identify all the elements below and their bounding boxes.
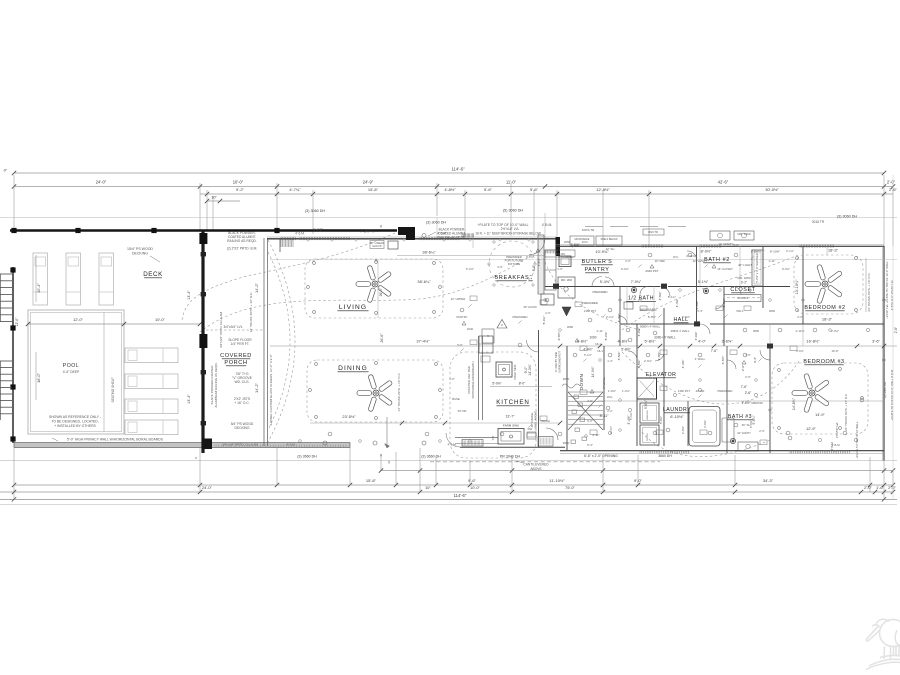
ceiling outline kitchen dashed [450, 352, 536, 458]
wall x763 vertical [762, 246, 764, 308]
svg-text:5'-0" HIGH PRIVACY WALL W/HORI: 5'-0" HIGH PRIVACY WALL W/HORIZONTAL BOR… [67, 437, 163, 441]
svg-text:4'-6⅝": 4'-6⅝" [566, 255, 574, 259]
ceiling outline living dashed [305, 259, 443, 318]
svg-text:1'-6": 1'-6" [449, 377, 455, 381]
svg-text:5'-0⅜" x 3'-0" SHOWER: 5'-0⅜" x 3'-0" SHOWER [755, 253, 759, 283]
deck rail posts top [11, 228, 16, 233]
ceiling outline dining dashed [307, 360, 443, 422]
svg-text:1'-0⅝": 1'-0⅝" [608, 389, 616, 393]
svg-text:30'-0½": 30'-0½" [765, 187, 779, 192]
svg-text:9'-0": 9'-0" [524, 366, 528, 374]
svg-text:2'-0": 2'-0" [887, 180, 896, 185]
svg-text:36" SH: 36" SH [742, 423, 751, 427]
extra living tiny circles [307, 239, 309, 241]
wall stair east x604 [603, 346, 605, 430]
svg-text:2'-6": 2'-6" [741, 365, 745, 371]
svg-text:114'-6": 114'-6" [451, 167, 464, 172]
svg-text:RAILING AS REQD.: RAILING AS REQD. [438, 236, 467, 240]
svg-text:3016 TR: 3016 TR [648, 230, 658, 234]
svg-text:5'-3": 5'-3" [587, 443, 593, 447]
svg-text:5'-6": 5'-6" [530, 187, 539, 192]
svg-text:37'-4½": 37'-4½" [416, 339, 430, 344]
svg-text:DECKING: DECKING [132, 252, 148, 256]
window hatch living north [281, 237, 295, 240]
stair down cross [568, 392, 603, 430]
spiral squiggle [562, 384, 580, 388]
svg-text:8'-0": 8'-0" [519, 382, 526, 386]
svg-text:26'-0": 26'-0" [379, 287, 383, 296]
svg-text:14'-2": 14'-2" [254, 382, 259, 393]
svg-text:3'-9⅝": 3'-9⅝" [682, 315, 690, 319]
svg-text:POOL: POOL [63, 363, 79, 369]
reference line y259 [270, 258, 897, 260]
breakfast built-in [545, 250, 575, 257]
interior extension verticals [436, 218, 438, 238]
tall box symbol [482, 329, 494, 343]
bath2 wc [703, 288, 708, 293]
svg-text:5'-0": 5'-0" [733, 243, 739, 247]
reference line y401 [598, 400, 884, 402]
cantilever dashed [430, 461, 660, 463]
svg-text:14'-2": 14'-2" [254, 282, 259, 293]
svg-text:42" LIGHT: 42" LIGHT [738, 263, 752, 267]
svg-text:4'-8½": 4'-8½" [444, 187, 456, 192]
svg-text:4' WALL: 4' WALL [695, 357, 706, 361]
svg-text:2'6"x5'8" LVL: 2'6"x5'8" LVL [835, 421, 839, 438]
svg-text:BUTLER'S: BUTLER'S [582, 259, 613, 265]
svg-text:4'-11⅜": 4'-11⅜" [686, 254, 696, 258]
svg-text:12'-9": 12'-9" [806, 427, 816, 431]
svg-text:16' CLOSET: 16' CLOSET [717, 267, 733, 271]
svg-text:4'-8½": 4'-8½" [657, 352, 661, 361]
extra pantry south jamb blocks [553, 284, 559, 289]
svg-text:PREWIRED: PREWIRED [582, 301, 599, 305]
svg-text:BASE: BASE [452, 397, 460, 401]
bath3 vanity [738, 442, 758, 451]
svg-text:3'-5": 3'-5" [587, 399, 593, 403]
corner block deck rail ne [398, 227, 415, 240]
svg-text:10'-4": 10'-4" [36, 282, 41, 293]
jamb living-east [556, 237, 561, 256]
svg-text:5'-6": 5'-6" [457, 343, 463, 347]
svg-text:5'-8½": 5'-8½" [621, 348, 631, 352]
svg-text:42" SH: 42" SH [606, 247, 615, 251]
svg-text:4'-6" DEEP: 4'-6" DEEP [63, 370, 80, 374]
svg-text:8'-10⅜": 8'-10⅜" [770, 250, 780, 254]
closet shelf box [724, 295, 761, 302]
svg-text:+2'x10" LVL +PLATE TO TOP OF: +2'x10" LVL +PLATE TO TOP OF 10'-0" WALL [885, 261, 889, 319]
bottom extension lines [13, 448, 15, 500]
svg-text:1360 PKT: 1360 PKT [678, 389, 691, 393]
svg-text:FIXTURE: FIXTURE [508, 262, 520, 266]
svg-text:10'-0": 10'-0" [233, 180, 244, 185]
kitchen farm sink [498, 429, 524, 445]
svg-text:2'-2": 2'-2" [607, 409, 613, 413]
svg-text:5'-0⅜": 5'-0⅜" [492, 382, 502, 386]
svg-text:1'-4": 1'-4" [607, 359, 613, 363]
svg-text:5'-1¾": 5'-1¾" [668, 295, 676, 299]
slider hatch nw corner living [281, 239, 293, 247]
breakfast table dashed circle [489, 241, 535, 287]
svg-text:24" TRUSS JSTS. + 16" O.C.: 24" TRUSS JSTS. + 16" O.C. [844, 393, 848, 431]
window hatch north right [642, 244, 663, 247]
svg-text:4'-7¾": 4'-7¾" [289, 187, 301, 192]
svg-text:3050: 3050 [563, 377, 570, 381]
svg-text:1/4" PER FT.: 1/4" PER FT. [231, 342, 250, 346]
svg-text:(3) 3060 DH: (3) 3060 DH [883, 382, 887, 398]
wall x664 vertical [663, 308, 665, 446]
bath2 shower [752, 250, 763, 286]
ceiling outline bedroom2 dashed [794, 255, 863, 314]
svg-text:SHOWN AS REFERENCE ONLY -: SHOWN AS REFERENCE ONLY - [49, 415, 101, 419]
large dashed sweep curves hall [622, 352, 800, 404]
glulam beam hatch porch south [216, 445, 346, 447]
svg-text:18'-3": 18'-3" [822, 317, 833, 322]
cabinets south wall kitchen [462, 440, 483, 447]
svg-text:+PLATE TO TOP OF 10'-0" WALL: +PLATE TO TOP OF 10'-0" WALL 4' B.M. [890, 369, 894, 421]
ceiling fan dining [357, 374, 393, 412]
svg-text:3016 TR: 3016 TR [812, 220, 825, 224]
svg-text:PREWIRED: PREWIRED [717, 389, 732, 393]
svg-text:16 R.: 16 R. [582, 240, 589, 244]
svg-text:SOTA TR: SOTA TR [582, 228, 595, 232]
svg-text:9'-0": 9'-0" [634, 478, 643, 483]
ceiling outline bedroom3 dashed [772, 363, 868, 434]
svg-text:3080½ 4' WALL: 3080½ 4' WALL [640, 325, 661, 329]
svg-text:3'-5½": 3'-5½" [721, 356, 725, 365]
svg-text:WD-1: WD-1 [736, 309, 744, 313]
svg-text:16.1: 16.1 [597, 349, 603, 353]
svg-text:2'-11": 2'-11" [597, 329, 604, 333]
svg-text:0: 0 [375, 259, 377, 263]
dim extension x387 arrow [386, 417, 388, 448]
svg-text:6'-0⅝": 6'-0⅝" [621, 267, 629, 271]
svg-text:3660 BARN: 3660 BARN [640, 308, 658, 312]
svg-text:W.H.: W.H. [607, 395, 613, 399]
svg-text:W/STORAGE UNDERNEATH: W/STORAGE UNDERNEATH [471, 361, 475, 398]
small cabinet boxes kitchen bottom [527, 432, 536, 439]
porch dashed midline [206, 329, 264, 331]
svg-text:4'-11⅝": 4'-11⅝" [795, 329, 804, 333]
half bath wc [631, 287, 636, 292]
svg-text:7'-8½": 7'-8½" [571, 244, 579, 248]
svg-text:DECKING: DECKING [234, 426, 249, 430]
stair upper left [0, 273, 12, 275]
deck dashed path curves [182, 233, 395, 320]
kitchen fridge box [541, 294, 554, 305]
svg-text:3'-0⅝": 3'-0⅝" [703, 420, 707, 428]
pool dim line [28, 323, 200, 325]
svg-text:SHELF BELOW: SHELF BELOW [600, 238, 618, 241]
svg-text:4'-11": 4'-11" [592, 433, 599, 437]
svg-text:8'-0½": 8'-0½" [701, 250, 712, 254]
svg-text:W/HD. ABOVE: W/HD. ABOVE [534, 411, 538, 430]
svg-text:10": 10" [211, 196, 217, 200]
svg-text:4' 6.M.: 4' 6.M. [295, 232, 305, 236]
svg-text:DINING: DINING [338, 365, 368, 372]
extra wall x538 door gap arc [527, 340, 539, 352]
svg-text:4' B.M.: 4' B.M. [542, 223, 553, 227]
svg-text:2'-6": 2'-6" [894, 327, 898, 333]
svg-text:WASHER: WASHER [646, 410, 649, 420]
svg-text:10'-0": 10'-0" [470, 485, 481, 490]
svg-text:18'-3": 18'-3" [828, 248, 839, 253]
svg-text:14'-3⅝": 14'-3⅝" [528, 363, 532, 375]
reference line y460 [0, 460, 897, 462]
svg-text:2'-0": 2'-0" [625, 259, 631, 263]
svg-text:(3) 3660 DH: (3) 3660 DH [421, 455, 441, 459]
breakfast cabinets west [545, 250, 556, 290]
svg-text:7'-6": 7'-6" [741, 385, 748, 389]
svg-text:5'-4⅝": 5'-4⅝" [600, 280, 611, 284]
svg-text:11'-10½": 11'-10½" [549, 478, 565, 483]
svg-text:2'-5⅝": 2'-5⅝" [658, 292, 662, 301]
porch west wall posts [199, 233, 207, 244]
ceiling fan bedroom3 [792, 373, 830, 412]
svg-text:2'-6": 2'-6" [545, 311, 551, 315]
extra kitchen counter line [455, 437, 498, 439]
stair misc boxes [574, 395, 579, 398]
svg-text:BATH #3: BATH #3 [728, 414, 752, 420]
svg-text:2'-8⅝": 2'-8⅝" [681, 426, 685, 434]
wall porch west heavy [201, 230, 204, 453]
svg-text:3080+ 4' WALL: 3080+ 4' WALL [654, 336, 676, 340]
svg-text:5'-8¾": 5'-8¾" [659, 416, 663, 424]
svg-text:TO BE DESIGNED, LOCATED,: TO BE DESIGNED, LOCATED, [51, 420, 98, 424]
svg-text:2'-6⅝": 2'-6⅝" [694, 332, 698, 341]
svg-text:PORCH: PORCH [224, 360, 247, 366]
corner post porch sw [202, 439, 213, 450]
svg-text:GAS FP: GAS FP [372, 244, 382, 248]
svg-text:42" DR: 42" DR [696, 389, 705, 393]
svg-text:1360 PKT: 1360 PKT [584, 309, 597, 313]
svg-text:ELEVATOR: ELEVATOR [646, 372, 677, 378]
svg-text:5'-1½": 5'-1½" [698, 280, 709, 284]
svg-text:3'-4½": 3'-4½" [609, 426, 613, 434]
svg-text:4'-3⅝": 4'-3⅝" [617, 314, 621, 323]
wall x637 vertical [636, 324, 638, 446]
svg-text:4'-8½": 4'-8½" [618, 339, 630, 344]
svg-text:(3) 3060 DH: (3) 3060 DH [305, 209, 325, 213]
svg-text:4' B.M.: 4' B.M. [832, 443, 841, 447]
svg-text:30" REF: 30" REF [655, 259, 666, 263]
svg-text:9'-0⅝": 9'-0⅝" [782, 267, 790, 271]
svg-text:7'-8½"+x: 7'-8½"+x [360, 230, 374, 234]
svg-text:6'-2⅝": 6'-2⅝" [466, 267, 474, 271]
svg-text:COVERED: COVERED [220, 353, 252, 359]
wall elevator shaft [637, 378, 657, 399]
ceiling fan living [356, 265, 392, 303]
svg-text:+PLATE TO TOP OF 10' WALL: +PLATE TO TOP OF 10' WALL [855, 421, 859, 459]
svg-text:PR 3040 DH: PR 3040 DH [500, 455, 521, 459]
svg-text:MR. 1660: MR. 1660 [737, 276, 750, 280]
svg-text:42" VANITY: 42" VANITY [737, 431, 751, 435]
outlet symbols scatter [299, 440, 302, 443]
wall living north [267, 238, 556, 240]
svg-text:16.1: 16.1 [595, 342, 601, 346]
svg-text:24'-9": 24'-9" [363, 180, 374, 185]
svg-text:BATH #2: BATH #2 [704, 257, 730, 263]
svg-text:2040: 2040 [467, 327, 474, 331]
svg-text:4'-8½": 4'-8½" [583, 348, 593, 352]
svg-text:5'-8½": 5'-8½" [648, 315, 656, 319]
wall porch east double [263, 238, 265, 446]
svg-text:3'-6⅝": 3'-6⅝" [796, 349, 804, 353]
kitchen range [479, 336, 493, 353]
ceiling fan bedroom2 [805, 264, 843, 303]
svg-text:PANTRY: PANTRY [456, 315, 467, 319]
svg-text:26'-0": 26'-0" [380, 333, 384, 343]
svg-text:2'-0": 2'-0" [759, 429, 765, 433]
svg-text:2'-1⅝": 2'-1⅝" [606, 315, 614, 319]
svg-text:1'-6": 1'-6" [876, 485, 884, 490]
svg-text:2'-2": 2'-2" [759, 249, 765, 253]
wall x724 vertical [723, 286, 725, 346]
svg-text:(3) 3660 DH: (3) 3660 DH [297, 455, 317, 459]
dim line y470 [380, 470, 893, 472]
svg-text:114'-6": 114'-6" [454, 493, 467, 498]
bottom reference line [0, 504, 897, 506]
svg-text:3660 DH: 3660 DH [658, 454, 672, 458]
svg-text:LAUNDRY: LAUNDRY [663, 407, 691, 413]
triangle symbols [536, 249, 540, 253]
light symbols scatter [328, 432, 332, 436]
fireplace bump [388, 241, 398, 249]
svg-text:30" DR: 30" DR [458, 409, 467, 413]
wall bath3 x727 [726, 346, 728, 453]
density2 sw arcs [529, 239, 545, 255]
svg-text:3'-6": 3'-6" [872, 339, 880, 344]
svg-text:38'-6¼": 38'-6¼" [417, 279, 431, 284]
svg-text:1'-6½": 1'-6½" [741, 401, 751, 405]
left wall living stub [279, 238, 281, 252]
svg-text:3/4"x3/4" LVL: 3/4"x3/4" LVL [223, 325, 242, 329]
svg-text:12'-8½": 12'-8½" [596, 187, 610, 192]
svg-text:3'-0": 3'-0" [797, 315, 803, 319]
wall pantry-bath2 south y286 [545, 286, 660, 288]
svg-text:3080: 3080 [567, 325, 574, 329]
svg-text:BEDROOM #2: BEDROOM #2 [804, 305, 845, 311]
pantry door triangle [562, 307, 571, 316]
svg-text:PANTRY: PANTRY [585, 267, 610, 273]
pool [28, 310, 124, 434]
svg-text:2660: 2660 [563, 441, 570, 445]
svg-text:PREP SINK: PREP SINK [513, 364, 517, 379]
dim row B line [0, 491, 893, 493]
svg-text:6'-10½": 6'-10½" [670, 414, 684, 419]
svg-text:ABOVE: ABOVE [530, 467, 542, 471]
svg-text:14" TRUSS JSTS. + 16" O.C.: 14" TRUSS JSTS. + 16" O.C. [397, 372, 401, 411]
svg-text:16" TRUSS JSTS. + 16" O.C.: 16" TRUSS JSTS. + 16" O.C. [249, 292, 253, 333]
svg-text:42" UPPER: 42" UPPER [451, 297, 466, 301]
svg-text:0: 0 [380, 225, 382, 229]
svg-text:9'-1⅝": 9'-1⅝" [526, 255, 534, 259]
svg-text:15'-8": 15'-8" [368, 187, 379, 192]
svg-text:12'-0": 12'-0" [15, 317, 19, 327]
wall x620 vertical [619, 286, 621, 346]
svg-text:4'-0": 4'-0" [698, 339, 706, 344]
svg-text:24" TRUSS JSTS. + 16" O.C.: 24" TRUSS JSTS. + 16" O.C. [867, 272, 871, 311]
svg-text:1'-6": 1'-6" [557, 267, 563, 271]
svg-text:TRASH: TRASH [540, 419, 549, 423]
svg-text:4'-0⅝": 4'-0⅝" [637, 328, 641, 337]
svg-text:34'-3": 34'-3" [763, 478, 774, 483]
svg-text:15'-8": 15'-8" [366, 478, 377, 483]
svg-text:16'-8": 16'-8" [831, 349, 838, 353]
svg-text:4'-3⅝": 4'-3⅝" [675, 299, 679, 308]
wall deck left rail [12, 267, 14, 443]
wall x660-670 laundry [687, 401, 689, 446]
svg-text:'U' ARE BY SIDE: 'U' ARE BY SIDE [554, 352, 558, 373]
svg-text:(2) 2'X2' PRTD. B.M.: (2) 2'X2' PRTD. B.M. [227, 247, 258, 251]
svg-text:3'-4": 3'-4" [753, 357, 757, 363]
svg-text:24'-0": 24'-0" [96, 180, 107, 185]
svg-text:5'-1⅝": 5'-1⅝" [584, 353, 592, 357]
svg-text:13'-10¼": 13'-10¼" [795, 279, 799, 295]
svg-text:9'-2": 9'-2" [236, 187, 245, 192]
dim line 38-6 y255 [397, 255, 545, 257]
svg-text:DRYER: DRYER [647, 433, 649, 441]
svg-text:10' VANITY: 10' VANITY [718, 242, 733, 246]
svg-text:16 R. + 11" DEEP BRICK+STORAGE: 16 R. + 11" DEEP BRICK+STORAGE BELOW [475, 232, 541, 236]
kitchen dim line y423 [310, 422, 560, 424]
svg-text:8'-7/8": 8'-7/8" [313, 228, 324, 232]
svg-text:1'-11": 1'-11" [769, 259, 776, 263]
svg-text:75'-0": 75'-0" [565, 485, 576, 490]
svg-text:5'-6¾": 5'-6¾" [644, 400, 648, 409]
svg-text:3080: 3080 [589, 336, 596, 340]
svg-text:PREWIRED: PREWIRED [512, 315, 527, 319]
svg-text:KITCHEN: KITCHEN [496, 399, 529, 406]
svg-text:4' 6.M.: 4' 6.M. [287, 443, 296, 447]
door arcs [660, 287, 670, 297]
svg-text:W.C.: W.C. [673, 255, 679, 259]
svg-text:HANGING: HANGING [737, 297, 748, 300]
kitchen tall cabinet hatch band [538, 235, 544, 294]
svg-text:3660: 3660 [769, 309, 776, 313]
deck rail posts left [10, 267, 15, 272]
extra closet rod line [727, 297, 760, 299]
svg-text:2068: 2068 [564, 240, 571, 244]
dim row A line [14, 484, 893, 486]
svg-text:2'-6⅝": 2'-6⅝" [644, 359, 652, 363]
svg-text:23'-5½": 23'-5½" [342, 414, 356, 419]
slider swing arcs [268, 240, 295, 442]
svg-text:HDR ABV: HDR ABV [555, 253, 566, 256]
svg-text:FARM SINK: FARM SINK [503, 424, 519, 428]
svg-text:8'-11": 8'-11" [600, 414, 609, 418]
svg-text:9" WALL: 9" WALL [602, 377, 606, 389]
svg-text:WD. CLG.: WD. CLG. [234, 380, 249, 384]
privacy wall bottom left [14, 443, 350, 448]
svg-text:13'-4": 13'-4" [187, 394, 191, 404]
svg-text:10": 10" [425, 485, 431, 490]
svg-text:3660: 3660 [753, 329, 760, 333]
kitchen bar counter [478, 336, 480, 420]
svg-text:14'-9⅝": 14'-9⅝" [591, 367, 595, 378]
svg-text:CLOSET: CLOSET [730, 287, 755, 293]
logo bird watermark [866, 619, 900, 669]
reference line y346 dim string [270, 345, 897, 347]
svg-text:(3) 3060 DH: (3) 3060 DH [426, 221, 446, 225]
svg-text:14'-9": 14'-9" [815, 413, 825, 417]
triangle symbol breakfast [497, 320, 507, 329]
svg-text:11'-0": 11'-0" [506, 180, 517, 185]
laundry washer dryer [640, 403, 659, 423]
svg-text:14'-8¾": 14'-8¾" [792, 397, 796, 410]
wall east [883, 246, 885, 461]
wall x697 vertical [696, 246, 698, 324]
